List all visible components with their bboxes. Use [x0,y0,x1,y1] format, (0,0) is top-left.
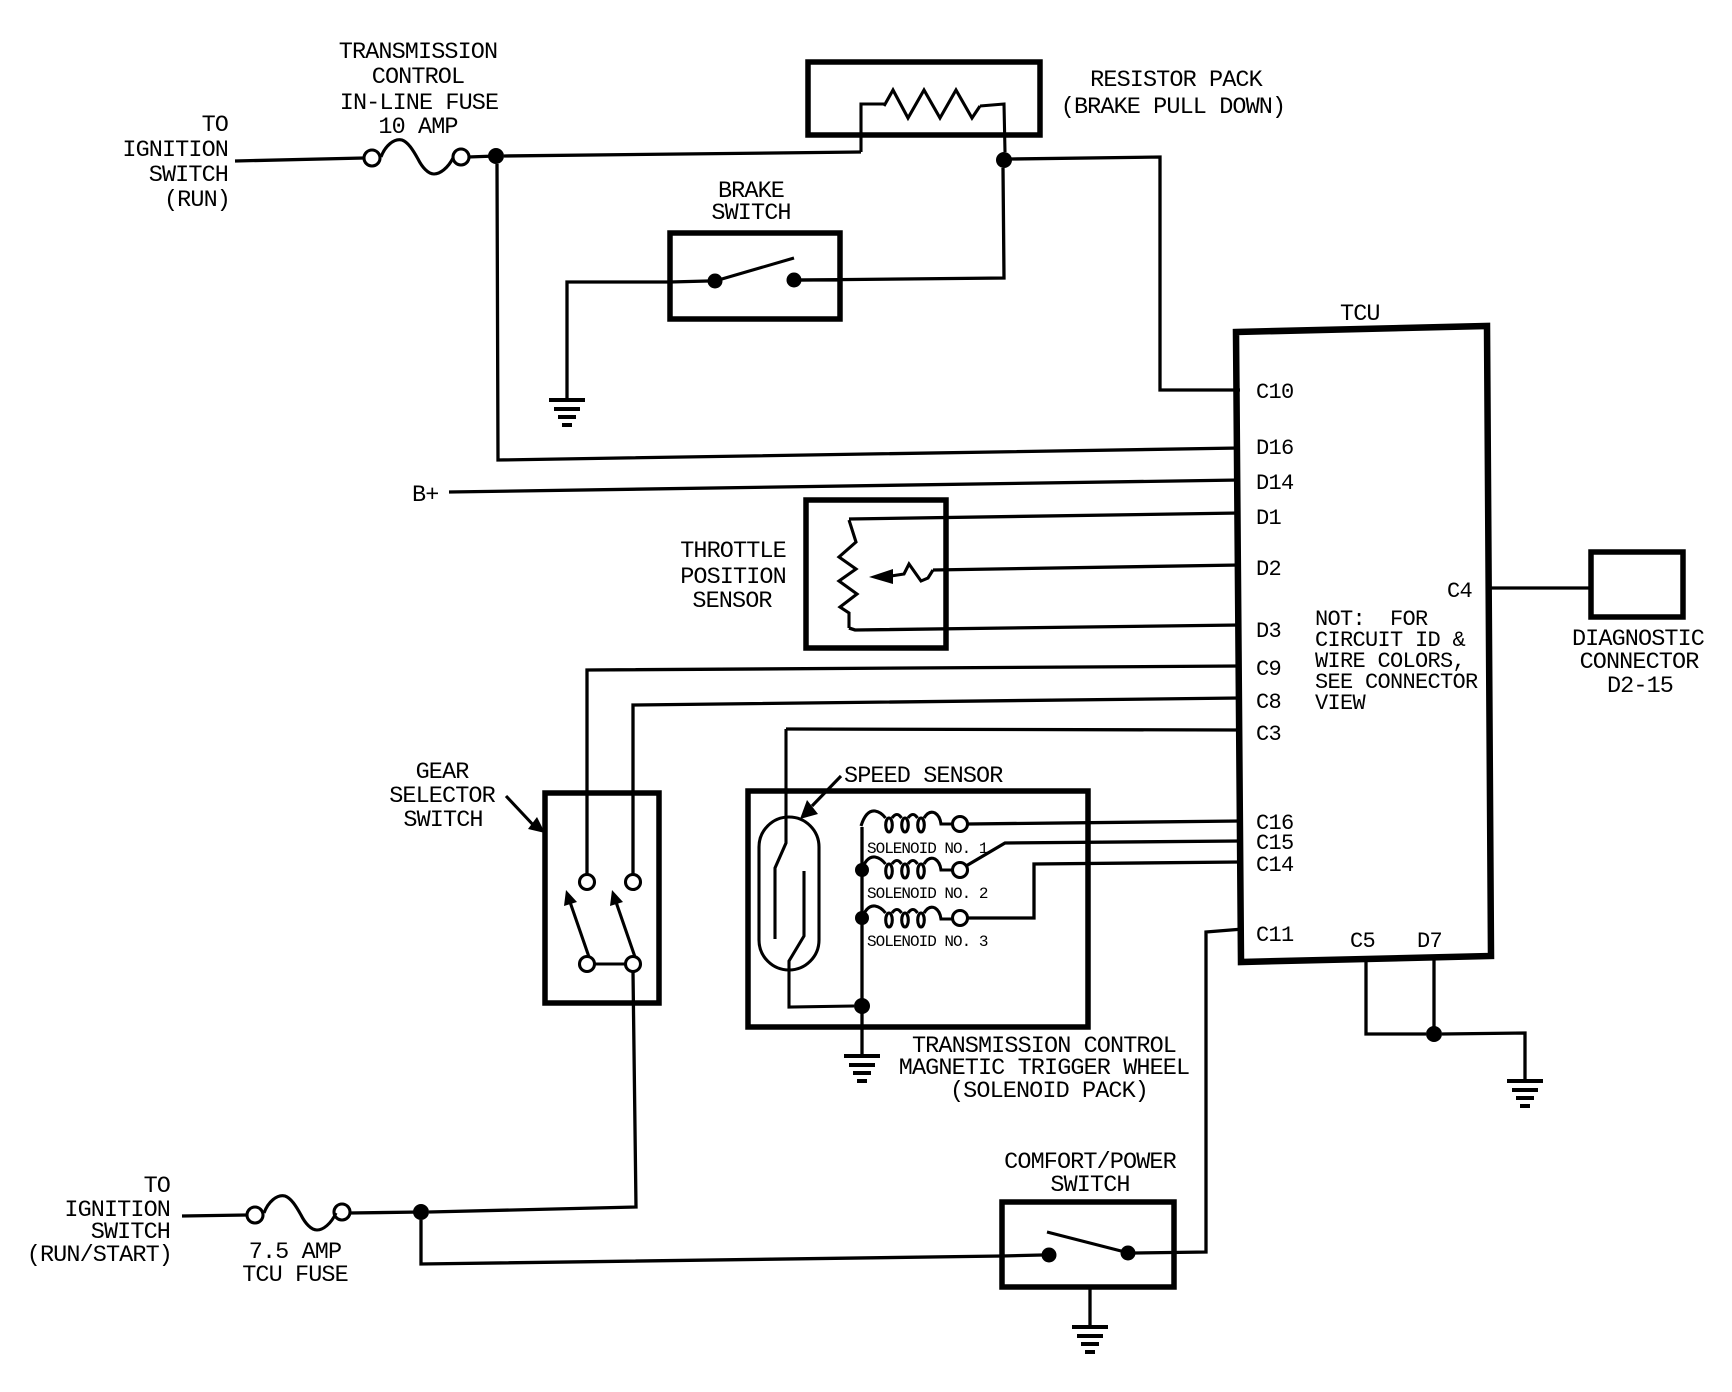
svg-text:(BRAKE PULL DOWN): (BRAKE PULL DOWN) [1061,94,1285,121]
label: TO IGNITION SWITCH (RUN) [122,112,230,214]
label: DIAGNOSTIC CONNECTOR D2-15 [1572,626,1705,700]
wire: C5 down [1366,960,1426,1034]
svg-text:10 AMP: 10 AMP [378,114,457,141]
svg-text:D7: D7 [1417,929,1442,954]
svg-text:VIEW: VIEW [1315,691,1367,716]
wire: brake switch left to ground [567,282,670,399]
svg-text:GEAR: GEAR [416,759,470,786]
wire: J1 down then right to D16 [497,164,1240,460]
wire: D7 down [1432,958,1435,1034]
label: BRAKE SWITCH [711,178,790,227]
junction J1 [488,148,504,164]
svg-text:C3: C3 [1256,722,1281,747]
pot bottom lead to D3 [849,625,1240,630]
wire+ground below solenoid pack [860,1006,863,1055]
wire: fuse to J3 [349,1212,421,1213]
wire: J1 to resistor pack left lead [504,152,861,156]
svg-text:D2: D2 [1256,557,1281,582]
svg-text:D1: D1 [1256,506,1282,531]
wiper: D2 wire with squiggle and arrow [933,565,1240,570]
wire: gear TL circle up then right to C9 [587,666,1240,874]
potentiometer zigzag [839,520,857,628]
svg-text:C11: C11 [1256,923,1294,948]
svg-text:B+: B+ [412,482,438,509]
junction J2 [996,152,1012,168]
junction J7 [1426,1026,1442,1042]
solenoid bus [860,827,863,1006]
wire: ignition run to fuse [235,158,364,161]
solenoid no.2 coil [861,857,953,878]
solenoid no.1 coil [861,811,953,832]
brake switch right contact [787,273,802,288]
solenoid no.3 coil [861,906,953,927]
label: TO IGNITION SWITCH (RUN/START) [27,1173,172,1269]
wire: J2 right then down to C10 [1011,157,1240,390]
label: TRANSMISSION CONTROL IN-LINE FUSE 10 AMP [339,39,498,141]
svg-text:(RUN/START): (RUN/START) [27,1242,172,1269]
ground below comfort/power switch [1088,1287,1091,1326]
wire: B+ to D14 [449,480,1240,492]
box: diagnostic connector [1591,552,1683,617]
wire: junction to ground [1442,1033,1525,1080]
label: GEAR SELECTOR SWITCH [389,759,495,834]
svg-text:SOLENOID NO. 3: SOLENOID NO. 3 [867,933,988,951]
speed sensor capsule [759,817,819,970]
box: gear selector switch [545,793,659,1003]
svg-text:IGNITION: IGNITION [122,137,228,164]
box: throttle position sensor [806,500,946,648]
box: comfort/power switch [1002,1202,1174,1287]
resistor R1 leads and zigzag [861,104,884,152]
svg-text:SELECTOR: SELECTOR [389,783,495,810]
svg-text:POSITION: POSITION [680,564,786,591]
wire: fuse to J1 [468,156,496,157]
junction J3 [413,1204,429,1220]
svg-text:TRANSMISSION: TRANSMISSION [339,39,497,66]
speed sensor inner element [789,871,854,1007]
ground (brake switch) [549,400,585,425]
label: TRANSMISSION CONTROL MAGNETIC TRIGGER WHEEL (SOLENOID PACK) [899,1033,1189,1105]
svg-text:SWITCH: SWITCH [149,162,228,189]
svg-text:CONTROL: CONTROL [372,64,464,91]
pot top lead to D1 [849,513,1240,519]
svg-text:C9: C9 [1256,657,1281,682]
pin labels [1256,380,1473,954]
svg-text:SOLENOID NO. 2: SOLENOID NO. 2 [867,885,988,903]
gear selector arrow 2 [616,902,635,957]
gear selector contact bottom-right [626,957,641,972]
svg-text:(SOLENOID PACK): (SOLENOID PACK) [950,1078,1148,1105]
wire: gear TR circle up then right to C8 [633,698,1240,874]
gear selector contact top-left [580,875,595,890]
gear selector contact top-right [626,875,641,890]
wire: C3 down into speed sensor [786,729,1240,730]
svg-text:TO: TO [144,1173,170,1200]
gear selector arrow 1 [570,902,589,957]
svg-text:SPEED SENSOR: SPEED SENSOR [844,763,1003,790]
fuse F1 (10 amp in-line fuse) [364,150,380,166]
solenoid 3 terminal [953,911,968,926]
gear selector contact bottom-left [580,957,595,972]
svg-text:SWITCH: SWITCH [403,807,482,834]
wire: solenoid1 to C16 [968,821,1240,824]
wire: J3 down then right to comfort/power switch [421,1220,1042,1264]
wire: solenoid3 to C14 [968,862,1240,918]
comfort/power switch blade [1047,1232,1125,1252]
svg-text:RESISTOR PACK: RESISTOR PACK [1090,67,1263,94]
brake switch blade [715,258,794,281]
wire: solenoid2 diagonal to C15 [966,841,1240,866]
svg-text:THROTTLE: THROTTLE [680,538,786,565]
svg-text:IN-LINE FUSE: IN-LINE FUSE [340,90,498,117]
svg-text:D2-15: D2-15 [1607,673,1673,700]
wire: J2 down then left to brake switch [801,168,1004,280]
wire: left contact stub [670,281,708,282]
brake switch left contact [708,274,723,289]
wire: gear BR circle down to J3 [429,972,636,1212]
box: TCU [1236,326,1491,962]
svg-text:SENSOR: SENSOR [692,588,772,615]
fuse F2 (7.5 amp TCU fuse) [247,1207,263,1223]
solenoid 1 terminal [953,817,968,832]
svg-text:C8: C8 [1256,690,1281,715]
box: solenoid pack [748,791,1088,1027]
label: 7.5 AMP TCU FUSE [242,1239,348,1289]
label: THROTTLE POSITION SENSOR [680,538,786,615]
junction J4 [854,998,870,1014]
comfort/power switch right contact [1121,1246,1136,1261]
svg-text:D16: D16 [1256,436,1294,461]
wire: bottom contacts link [595,962,626,965]
svg-text:D14: D14 [1256,471,1294,496]
junction J6 [855,911,869,925]
svg-text:C14: C14 [1256,853,1294,878]
wire to fuse [182,1215,247,1216]
label: RESISTOR PACK (BRAKE PULL DOWN) [1061,67,1285,121]
leader arrow to box [506,796,537,829]
svg-text:D3: D3 [1256,619,1281,644]
svg-text:(RUN): (RUN) [164,187,230,214]
note text [1315,607,1478,716]
label: COMFORT/POWER SWITCH [1004,1149,1176,1199]
svg-text:SOLENOID NO. 1: SOLENOID NO. 1 [867,840,988,858]
leader arrow [812,776,841,806]
comfort/power switch left contact [1042,1248,1057,1263]
svg-text:TO: TO [202,112,228,139]
box: brake switch [670,233,840,319]
solenoid 2 terminal [953,863,968,878]
svg-text:TCU: TCU [1340,301,1380,328]
svg-text:SWITCH: SWITCH [1050,1172,1129,1199]
svg-text:TCU FUSE: TCU FUSE [242,1262,348,1289]
svg-text:CONNECTOR: CONNECTOR [1580,649,1700,676]
svg-text:C4: C4 [1447,579,1473,604]
wire: right contact stub [801,278,840,281]
wire: C4 to diagnostic connector [1489,586,1591,589]
svg-text:C10: C10 [1256,380,1294,405]
wire: right contact to C11 [1135,929,1243,1253]
box: resistor pack [808,62,1040,135]
svg-text:SWITCH: SWITCH [711,200,790,227]
junction J5 [855,863,869,877]
svg-text:C5: C5 [1350,929,1375,954]
